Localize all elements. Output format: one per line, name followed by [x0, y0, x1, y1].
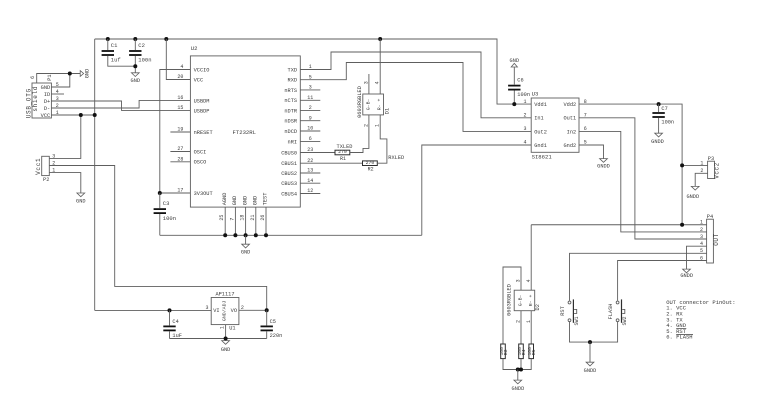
- svg-text:AGND: AGND: [222, 193, 228, 206]
- svg-text:Gnd2: Gnd2: [563, 143, 576, 149]
- capacitor C5 220n: [266, 310, 268, 325]
- svg-text:100n: 100n: [163, 215, 176, 222]
- svg-text:In1: In1: [534, 116, 544, 122]
- svg-text:OUT: OUT: [713, 233, 720, 245]
- junction GND18: [244, 233, 248, 237]
- ground GNDD (switches): [589, 342, 591, 362]
- svg-text:nRTS: nRTS: [284, 88, 297, 94]
- ground GND (U2): [245, 235, 247, 244]
- svg-text:C5: C5: [270, 319, 276, 325]
- svg-text:Out1: Out1: [563, 116, 576, 122]
- wire RXD from U3 Out2: [300, 63, 531, 132]
- wire Vdd2 to P3/P4: [579, 104, 682, 225]
- junction TEST: [264, 233, 268, 237]
- wire D+ to USBDP: [51, 101, 190, 110]
- svg-text:G-B-: G-B-: [366, 98, 372, 110]
- svg-text:3: 3: [205, 305, 208, 311]
- svg-text:R4: R4: [521, 349, 527, 355]
- wire VCC from P1 pin1: [51, 114, 94, 116]
- svg-text:R- +: R- +: [377, 98, 383, 110]
- svg-text:7: 7: [229, 218, 235, 221]
- ground GNDD (P3): [691, 186, 699, 190]
- resistor R1 270 TXLED: [335, 150, 350, 155]
- svg-text:nRI: nRI: [288, 139, 298, 145]
- svg-text:C3: C3: [163, 200, 170, 207]
- svg-text:CBUS1: CBUS1: [281, 161, 297, 167]
- wire P4 pin5 RST to SW1: [570, 253, 707, 300]
- svg-text:R3: R3: [503, 349, 509, 355]
- connector P3 Vcc2: [700, 156, 720, 179]
- svg-text:shield: shield: [32, 86, 39, 112]
- ground GNDD (D2 resistors): [517, 370, 519, 381]
- svg-text:VCCIO: VCCIO: [194, 67, 210, 73]
- wire CBUS0 to R1: [300, 152, 335, 154]
- wire Gnd2 to GNDD: [579, 145, 604, 159]
- wire P2 pin1 to GND: [49, 173, 81, 193]
- svg-text:GND: GND: [221, 347, 231, 353]
- svg-text:nRESET: nRESET: [194, 130, 213, 136]
- junction C7: [657, 102, 661, 106]
- switch SW2 FLASH: [608, 299, 628, 325]
- svg-text:GND: GND: [510, 58, 520, 64]
- wire D- to USBDM: [51, 100, 190, 108]
- resistor R5 100: [529, 344, 534, 359]
- wire VCC left vertical and to AP1117 VI: [94, 39, 96, 310]
- svg-text:GND: GND: [76, 198, 86, 204]
- wire P1 pin4 ID stub: [51, 93, 64, 95]
- U2 bottom pin numbers rotated: [219, 215, 266, 221]
- wire D2 pin2 to R4: [520, 311, 522, 344]
- junction VCC/P2: [79, 113, 83, 117]
- svg-text:100n: 100n: [138, 57, 151, 64]
- svg-text:R1: R1: [340, 156, 346, 162]
- U2 bottom pin names rotated: [222, 193, 269, 206]
- capacitor C1 1uf: [107, 39, 109, 50]
- svg-text:1: 1: [523, 99, 526, 105]
- svg-text:D2: D2: [535, 304, 541, 310]
- resistor R2 270 RXLED: [363, 161, 378, 166]
- svg-text:GNDD: GNDD: [686, 194, 699, 200]
- junction shield/GND: [68, 72, 72, 76]
- junction D1 anode on rail: [378, 37, 382, 41]
- capacitor C4 1uF: [169, 310, 171, 325]
- svg-text:FLASH: FLASH: [608, 304, 614, 320]
- junction GND21: [254, 233, 258, 237]
- svg-text:P2: P2: [43, 177, 49, 183]
- svg-text:P1: P1: [47, 74, 53, 80]
- wire P1 pin5 GND: [51, 74, 69, 88]
- svg-text:GND: GND: [242, 196, 248, 206]
- wire D2 pin1 to R5: [530, 311, 532, 344]
- svg-text:R5: R5: [531, 349, 537, 355]
- U2 unconnected right stubs: [300, 89, 320, 91]
- switch SW1 RST: [560, 299, 580, 325]
- svg-text:GND: GND: [253, 196, 259, 206]
- connector P2 Vcc1: [35, 153, 55, 183]
- junction C2 on rail: [133, 37, 137, 41]
- svg-text:D-: D-: [44, 106, 50, 112]
- svg-text:C6: C6: [517, 78, 523, 84]
- ground GND (C6, pointing up): [511, 63, 517, 67]
- LED D2 0603RGBLED: [507, 279, 541, 323]
- junction VCC vertical: [93, 113, 97, 117]
- junction switches GNDD: [588, 340, 592, 344]
- junction VO/C5: [265, 308, 269, 312]
- svg-text:TEST: TEST: [263, 193, 269, 206]
- IC U3 SI8621 body: [531, 91, 579, 161]
- svg-text:In2: In2: [567, 129, 577, 135]
- ground GNDD (P4 pin4): [683, 269, 691, 273]
- svg-text:100n: 100n: [517, 92, 530, 98]
- svg-text:GND: GND: [241, 250, 251, 256]
- connector P1 USB_OTG: [25, 74, 59, 118]
- svg-text:CBUS0: CBUS0: [281, 150, 297, 156]
- wire In2 to P4 pin2 RX: [579, 131, 707, 232]
- svg-text:GNDD: GNDD: [597, 164, 610, 170]
- resistor R4 100: [519, 344, 524, 359]
- svg-text:RST: RST: [560, 306, 566, 316]
- svg-text:0603RGBLED: 0603RGBLED: [357, 86, 363, 118]
- wire U1 VO to C5: [239, 309, 267, 311]
- svg-text:3: 3: [700, 234, 703, 240]
- capacitor C3 100n: [159, 193, 161, 208]
- LED D1 0603RGBLED: [357, 81, 391, 127]
- junction C4: [168, 308, 172, 312]
- U2 bottom ground pins: [224, 207, 226, 235]
- wire R2 to D1 pin1: [377, 115, 387, 163]
- svg-text:GNDD: GNDD: [512, 386, 525, 392]
- wire D1 pin3 stub: [368, 74, 370, 94]
- svg-text:GNDD: GNDD: [680, 273, 693, 279]
- svg-text:GND: GND: [84, 69, 90, 79]
- U3 pin names: [534, 102, 576, 149]
- ground GND (C2): [131, 73, 139, 77]
- svg-text:2: 2: [523, 113, 526, 119]
- svg-text:CBUS3: CBUS3: [281, 181, 297, 187]
- svg-text:4: 4: [523, 140, 526, 146]
- wire VCCIO tied to 3V3OUT: [160, 70, 191, 194]
- svg-text:GND: GND: [232, 196, 238, 206]
- junction 3V3OUT/C3: [158, 191, 162, 195]
- svg-text:C2: C2: [138, 42, 145, 49]
- svg-text:Vdd1: Vdd1: [534, 102, 547, 108]
- U2 right pin numbers: [307, 64, 313, 194]
- svg-text:OSCI: OSCI: [194, 149, 207, 155]
- wire U2 VCC from rail: [166, 39, 190, 80]
- svg-text:CBUS4: CBUS4: [281, 191, 297, 197]
- svg-text:R2: R2: [368, 166, 374, 172]
- junction GND7: [233, 233, 237, 237]
- svg-text:VCC: VCC: [41, 113, 51, 119]
- junction U1 GND: [224, 337, 228, 341]
- svg-text:TXD: TXD: [288, 67, 298, 73]
- wire D2 pin4 anode from P4 pin1: [530, 225, 532, 290]
- svg-text:100n: 100n: [661, 120, 674, 126]
- svg-text:CBUS2: CBUS2: [281, 171, 297, 177]
- ground GNDD (C7): [655, 133, 663, 137]
- svg-text:2: 2: [700, 227, 703, 233]
- wire SW2 bottom to GNDD: [590, 322, 618, 342]
- ground GND (P2 pin1): [77, 193, 85, 197]
- svg-text:nDCD: nDCD: [284, 129, 297, 135]
- svg-text:D1: D1: [385, 108, 391, 114]
- ground GND (U1): [222, 341, 230, 345]
- IC U2 FT232RL body: [190, 45, 300, 207]
- svg-text:VO: VO: [231, 308, 237, 314]
- svg-text:VI: VI: [213, 308, 219, 314]
- svg-text:VCC: VCC: [194, 77, 204, 83]
- wire D2 pin3 to R3: [503, 267, 521, 344]
- svg-text:18: 18: [240, 215, 246, 221]
- junction R4 bottom: [519, 368, 523, 372]
- svg-text:Gnd1: Gnd1: [534, 143, 547, 149]
- svg-text:D+: D+: [44, 99, 50, 105]
- wire U1 ground rail: [170, 338, 267, 340]
- junction C1/C2 ground: [133, 64, 137, 68]
- svg-text:GNDD: GNDD: [651, 139, 664, 145]
- ground GNDD (Gnd2): [600, 159, 608, 163]
- wire D1 pin4 anode to VCC rail: [379, 39, 381, 94]
- svg-text:ID: ID: [44, 92, 50, 98]
- regulator U1 AP1117 body: [205, 292, 243, 332]
- junction P4 pin1/Vdd2: [680, 223, 684, 227]
- svg-text:GND/ADJ: GND/ADJ: [222, 300, 228, 321]
- wire Out1 to P4 pin3 TX: [579, 118, 707, 239]
- svg-text:26: 26: [260, 215, 266, 221]
- svg-text:0603RGBLED: 0603RGBLED: [507, 284, 513, 316]
- svg-text:2: 2: [363, 124, 369, 127]
- svg-text:3: 3: [515, 279, 521, 282]
- wire U2 ground rail: [160, 234, 422, 236]
- wire P1 shield to gnd: [37, 74, 80, 84]
- wire 3V3 from P2 pin2 to U1 VO: [49, 166, 266, 311]
- svg-text:C7: C7: [661, 106, 667, 112]
- svg-text:USB_OTG: USB_OTG: [25, 88, 32, 118]
- svg-text:U1: U1: [229, 326, 235, 332]
- svg-text:6: 6: [30, 76, 36, 79]
- junction GNDD stem: [516, 368, 520, 372]
- note OUT connector pinout: [666, 299, 735, 341]
- U2 left pin numbers: [177, 64, 183, 194]
- svg-text:C1: C1: [111, 42, 118, 49]
- junction P3 pin1: [680, 163, 684, 167]
- junction C1 on rail: [106, 37, 110, 41]
- capacitor C2 100n: [134, 39, 136, 50]
- junction AGND: [223, 233, 227, 237]
- svg-text:SW2: SW2: [622, 316, 628, 325]
- U3 pin numbers: [523, 99, 586, 146]
- svg-text:Out2: Out2: [534, 129, 547, 135]
- svg-text:1uf: 1uf: [111, 57, 121, 64]
- svg-text:USBDM: USBDM: [194, 98, 210, 104]
- wire U1 GND pin: [225, 325, 227, 339]
- svg-text:FT232RL: FT232RL: [233, 129, 257, 136]
- svg-text:RXD: RXD: [288, 78, 298, 84]
- svg-text:C4: C4: [172, 319, 178, 325]
- wire P3 pin2 to GNDD: [695, 173, 707, 186]
- ground GND (P1 shield, pointing right): [80, 71, 83, 77]
- svg-text:G-B-: G-B-: [518, 294, 524, 306]
- wire VCC top rail: [95, 39, 532, 104]
- svg-text:TXLED: TXLED: [337, 144, 353, 150]
- resistor R3 100: [501, 344, 506, 359]
- svg-text:P3: P3: [708, 156, 714, 162]
- svg-text:1: 1: [375, 124, 381, 127]
- wire P2 pin3 to VCC: [49, 115, 81, 158]
- capacitor C6 100n: [513, 67, 515, 85]
- svg-text:25: 25: [219, 215, 225, 221]
- svg-text:Vcc1: Vcc1: [35, 158, 42, 175]
- U2 unconnected left stubs: [170, 131, 190, 133]
- wire TXD to U3 In1: [300, 52, 531, 118]
- wire U3 Gnd1 to ground rail: [422, 145, 531, 235]
- U2 right pin names: [281, 67, 298, 197]
- svg-text:220n: 220n: [270, 333, 283, 339]
- wire P3 pin1 from Vdd2: [682, 164, 708, 166]
- svg-text:nDTR: nDTR: [284, 108, 298, 114]
- U2 left pin names: [194, 67, 213, 197]
- svg-text:RXLED: RXLED: [388, 155, 404, 161]
- svg-text:3V3OUT: 3V3OUT: [194, 191, 213, 197]
- svg-text:Vcc2: Vcc2: [713, 162, 720, 178]
- connector P4 OUT: [700, 214, 720, 263]
- wire R1 to D1 pin2: [350, 115, 369, 153]
- svg-text:nDSR: nDSR: [284, 119, 298, 125]
- svg-text:R- +: R- +: [528, 294, 534, 306]
- svg-text:4: 4: [375, 81, 381, 84]
- svg-text:SI8621: SI8621: [532, 153, 553, 160]
- wire P4 pin4 to GNDD: [687, 246, 707, 269]
- wire P4 pin6 FLASH to SW2: [618, 261, 707, 301]
- wire U1 VI from VCC: [95, 309, 212, 311]
- svg-text:U3: U3: [532, 91, 539, 98]
- wire resistor bottoms to GNDD: [503, 359, 531, 370]
- svg-text:21: 21: [250, 215, 256, 221]
- svg-text:Vdd2: Vdd2: [563, 102, 576, 108]
- svg-text:1: 1: [219, 326, 225, 329]
- capacitor C7 100n: [658, 104, 660, 112]
- svg-text:AP1117: AP1117: [215, 292, 234, 298]
- wire P4 pin1 VCC from D2 anode: [531, 224, 706, 226]
- svg-text:nCTS: nCTS: [284, 98, 297, 104]
- svg-text:GNDD: GNDD: [584, 368, 597, 374]
- junction C6/Vdd1: [512, 102, 516, 106]
- svg-text:270: 270: [366, 160, 375, 166]
- svg-text:OSCO: OSCO: [194, 160, 207, 166]
- svg-text:U2: U2: [191, 45, 198, 52]
- svg-text:GND: GND: [41, 85, 51, 91]
- svg-text:2: 2: [515, 320, 521, 323]
- svg-text:GND: GND: [131, 78, 141, 84]
- svg-text:USBDP: USBDP: [194, 108, 210, 114]
- wire CBUS1 to R2: [300, 162, 362, 164]
- svg-text:3: 3: [523, 126, 526, 132]
- junction U2 VCC drop: [164, 37, 168, 41]
- svg-text:P4: P4: [707, 214, 713, 220]
- svg-text:SW1: SW1: [574, 316, 580, 325]
- wire SW1 bottom to GNDD: [570, 322, 591, 342]
